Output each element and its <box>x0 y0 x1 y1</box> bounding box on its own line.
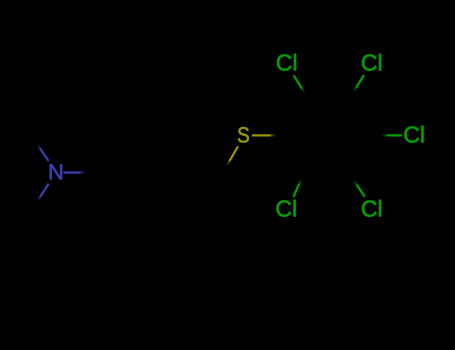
wire fade tail H <box>385 134 387 136</box>
wire S-ring bond going right (olive half) <box>252 134 271 136</box>
wire Cl1-ring bond (green half) <box>294 75 302 88</box>
wire Cl2-ring bond (green half) <box>356 75 364 88</box>
atom Cl top-right <box>362 54 381 71</box>
wire N-CH3 upper methyl bond (blue half) <box>40 149 49 162</box>
wire fade tail J <box>355 183 356 185</box>
wire N-CH2 bond going right (blue half) <box>64 171 81 173</box>
atom Cl bottom-right <box>362 200 381 217</box>
wire Cl3-ring bond (green half) <box>387 134 402 136</box>
wire fade tail B <box>39 197 40 199</box>
atom N (dimethylamino nitrogen) <box>50 164 62 179</box>
atom Cl right <box>404 126 423 143</box>
wire S-CH2 bond going down-left (olive half) <box>230 146 239 161</box>
wire Cl4-ring bond (green half) <box>293 184 299 197</box>
atom Cl bottom-left <box>277 200 296 217</box>
wire fade tail E <box>271 134 273 136</box>
atom Cl top-left <box>277 54 296 71</box>
wire fade tail G <box>355 88 356 90</box>
wire fade tail D <box>228 161 229 163</box>
wire fade tail C <box>81 171 83 173</box>
wire N-CH3 lower methyl bond (blue half) <box>40 184 49 197</box>
wire fade tail F <box>302 89 303 91</box>
wire fade tail A <box>39 147 40 149</box>
atom S (thioether sulfur) <box>238 127 249 143</box>
wire fade tail I <box>299 182 300 184</box>
wire Cl5-ring bond (green half) <box>357 185 365 197</box>
